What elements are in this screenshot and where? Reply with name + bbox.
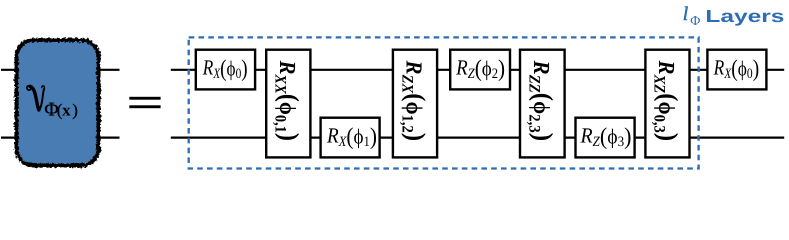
svg-text:Layers: Layers <box>705 6 784 26</box>
svg-text:x: x <box>62 100 71 119</box>
svg-text:RZ(ϕ2): RZ(ϕ2) <box>455 55 505 82</box>
svg-text:RZ(ϕ3): RZ(ϕ3) <box>580 123 632 150</box>
svg-text:RX(ϕ0): RX(ϕ0) <box>202 55 248 82</box>
svg-text:RX(ϕ0): RX(ϕ0) <box>713 55 759 82</box>
svg-text:Φ: Φ <box>690 13 700 28</box>
svg-text:RX(ϕ1): RX(ϕ1) <box>326 123 377 150</box>
svg-text:): ) <box>72 100 78 119</box>
svg-text:l: l <box>683 4 688 25</box>
